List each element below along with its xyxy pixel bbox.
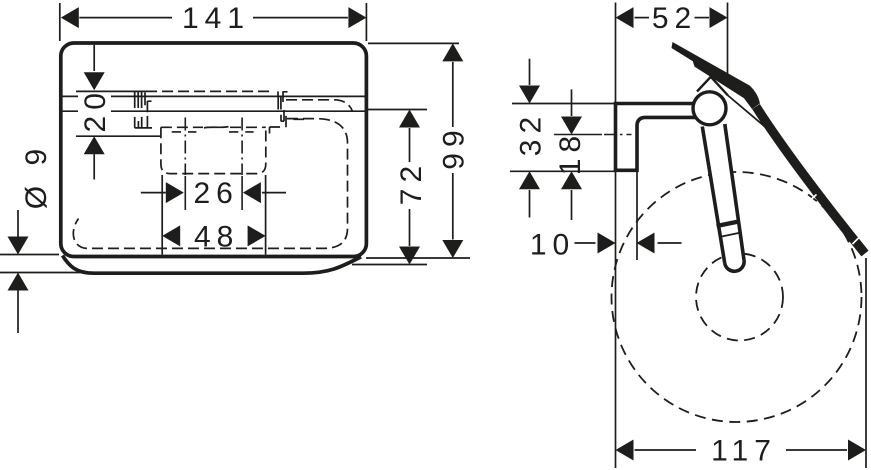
bottom reference line y=258 (99) [366, 257, 470, 259]
right clip hatch marks [270, 92, 305, 134]
cover flap straight wedge (top section) [672, 42, 761, 109]
dimension 99 arrowheads [442, 43, 463, 258]
svg-text:20: 20 [79, 87, 112, 132]
dimension 10 arrowheads [598, 233, 655, 254]
dimension 99 line [452, 62, 454, 240]
cover recess dashed outline right/bottom [73, 119, 347, 249]
dimension 117 line segments [635, 449, 848, 451]
cover recess dashed upper step line [286, 100, 353, 112]
svg-text:48: 48 [194, 220, 239, 253]
hole center cross tick right [229, 131, 254, 133]
dimension 18 leaders [571, 89, 573, 220]
dimension 26 arrowheads [166, 182, 261, 203]
dimension 72 arrowheads [399, 110, 420, 265]
Ø9 reference line bottom y=272.5 [0, 272, 86, 274]
front view bottom tray (lower cover bulge) [63, 256, 362, 274]
dimension 32 arrowheads [519, 86, 540, 190]
wall extension line x=615.5 [615, 3, 617, 469]
dimension 52 arrowheads [616, 7, 728, 28]
99 top reference line y=43.4 [368, 42, 459, 44]
141 extension line left [59, 3, 61, 41]
niche top dashed line y=127.3 [161, 126, 266, 128]
bar top hidden dashed line y=91.4 [146, 90, 273, 92]
inner dashed core circle [696, 254, 783, 341]
10 extension line x=637 [636, 172, 638, 260]
dimension 48 arrowheads [162, 225, 265, 246]
dimension 20 arrowheads [84, 72, 105, 154]
hole centerline left solid extension [184, 176, 186, 210]
20 dim bottom reference line y=136.2 [76, 135, 161, 137]
bracket bottom reference line y=171.3 [510, 170, 616, 172]
cover flap curved band (lower section) [756, 107, 865, 254]
holder arm left edge [702, 127, 724, 264]
72 top reference line y=109.5 [368, 109, 427, 111]
svg-text:52: 52 [652, 2, 697, 35]
arm cross bar thin [719, 233, 741, 238]
svg-text:Ø 9: Ø 9 [20, 143, 53, 209]
dimension 32 leaders [529, 59, 531, 218]
svg-text:99: 99 [437, 124, 470, 169]
dashed end hook at bar right [277, 91, 279, 96]
mounting hole centerline extension y=134.5 [554, 134, 602, 136]
141 extension line right [365, 3, 367, 41]
left clip hatch marks [135, 92, 152, 128]
dimension 72 line [409, 128, 411, 246]
bracket top reference line y=103.5 [512, 103, 616, 105]
holder arm right edge [725, 124, 744, 260]
hole centerline right x=242.1 (dash-dot) [241, 118, 243, 176]
holder arm white fill [702, 124, 744, 271]
flap to pivot connector triangle [697, 77, 728, 96]
front view body outline [61, 43, 367, 257]
dimension 26 line and tails [141, 192, 286, 194]
bar top reference line solid y=91.4 [76, 90, 146, 92]
mounting hole centerline y=134.5 (dash-dot) [604, 134, 632, 136]
svg-text:32: 32 [515, 111, 548, 156]
dimension 18 arrowheads [561, 117, 582, 190]
arm cross bar thick [717, 222, 739, 227]
52 extension line right x=727.5 [727, 3, 729, 79]
svg-text:26: 26 [194, 177, 239, 210]
bottom reference line y=264.5 (72) [352, 264, 427, 266]
dimension 117 arrowheads [616, 440, 867, 461]
dimension 10 leader and tail [575, 242, 682, 244]
seam line lower y=111.2 [63, 110, 366, 112]
niche top break squiggle [204, 127, 229, 128]
big dashed roll circle Ø117 [612, 172, 862, 422]
roll niche dashed rounded rect (48 width) [161, 127, 266, 173]
dimension 141 arrowheads [61, 7, 367, 28]
flap inner surface thin line [728, 96, 767, 129]
dimension 52 line segments [635, 17, 710, 19]
48 extension line right x=265.6 [265, 175, 267, 255]
svg-text:18: 18 [554, 130, 587, 175]
48 extension line left x=162.2 [161, 175, 163, 255]
svg-text:10: 10 [530, 229, 575, 262]
wall bracket profile [616, 104, 701, 171]
seam line upper y=96.4 [63, 95, 366, 97]
hole centerline right solid extension [241, 176, 243, 210]
svg-text:72: 72 [395, 160, 428, 205]
Ø9 arrowheads [8, 237, 29, 291]
pivot circle [693, 92, 726, 125]
hole centerline left x=185.3 (dash-dot) [184, 118, 186, 176]
holder arm tip U [725, 260, 744, 271]
flap notch [808, 195, 861, 245]
Ø9 leader lines [17, 210, 19, 333]
dimension 141 line segments [79, 17, 348, 19]
hole center cross tick left [172, 131, 197, 133]
dimension 20 leader and arrows [93, 45, 95, 180]
117 extension line right x=866 [865, 258, 867, 468]
svg-text:141: 141 [182, 2, 250, 35]
svg-text:117: 117 [711, 435, 777, 468]
Ø9 reference line top y=254.5 [0, 254, 59, 256]
